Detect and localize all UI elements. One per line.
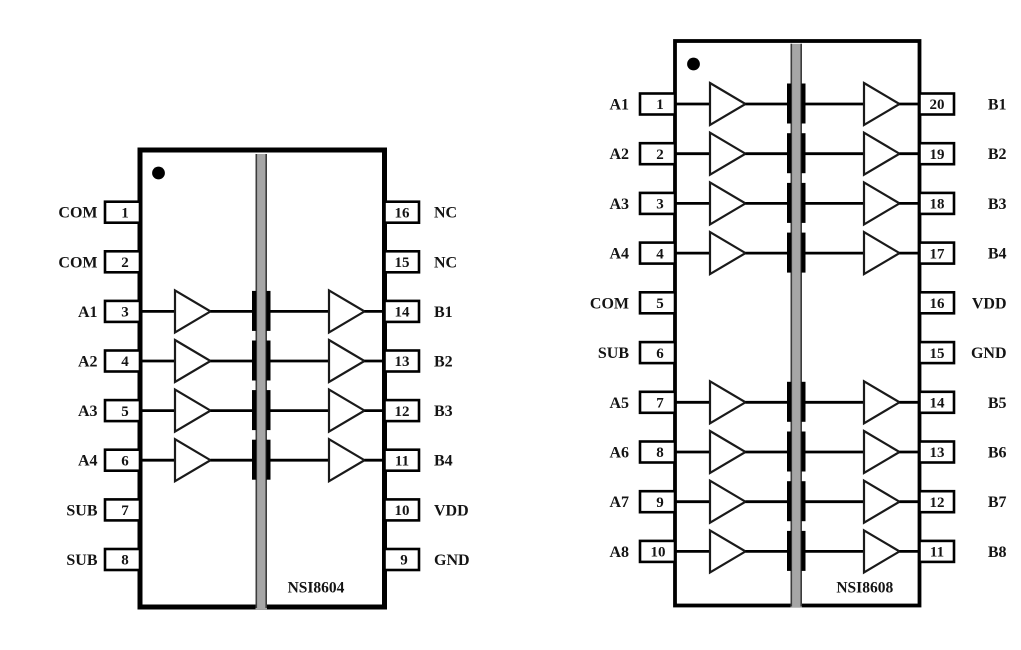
svg-text:11: 11 — [930, 545, 944, 561]
pin 1 box (NSI8604) — [105, 202, 140, 223]
isolation barrier (NSI8604) — [256, 154, 268, 609]
svg-text:16: 16 — [930, 296, 946, 312]
wire pin 10 to buffer input (NSI8608 A8-B8) — [673, 550, 710, 553]
pin 8 box (NSI8608) — [640, 442, 675, 463]
pin 17 box (NSI8608) — [920, 243, 955, 264]
wire buffer to pin 18 (NSI8608 A3-B3) — [900, 202, 922, 205]
pin 2 box (NSI8604) — [105, 251, 140, 272]
buffer driver A6 input side (NSI8608) — [710, 431, 746, 473]
buffer driver B4 output side (NSI8604) — [329, 439, 365, 481]
barrier coupling plate left (NSI8604 A2-B2) — [252, 341, 256, 381]
wire buffer output to barrier (NSI8608 A6-B6) — [746, 451, 788, 454]
pin 10 box (NSI8608) — [640, 541, 675, 562]
svg-text:A3: A3 — [78, 403, 98, 420]
wire buffer output to barrier (NSI8608 A2-B2) — [746, 152, 788, 155]
buffer driver A8 input side (NSI8608) — [710, 530, 746, 572]
pin 4 box (NSI8608) — [640, 243, 675, 264]
isolation barrier (NSI8608) — [791, 44, 803, 608]
wire buffer to pin 20 (NSI8608 A1-B1) — [900, 103, 922, 106]
pin 20 box (NSI8608) — [920, 94, 955, 115]
svg-text:15: 15 — [930, 346, 945, 362]
barrier coupling plate right (NSI8604 A4-B4) — [266, 440, 270, 480]
barrier coupling plate right (NSI8608 A3-B3) — [801, 183, 805, 223]
buffer driver B3 output side (NSI8608) — [864, 182, 900, 224]
pin 18 box (NSI8608) — [920, 193, 955, 214]
wire barrier to buffer input (NSI8608 A4-B4) — [806, 252, 865, 255]
svg-text:A2: A2 — [609, 146, 629, 163]
svg-text:6: 6 — [121, 453, 129, 469]
wire pin 4 to buffer input (NSI8604 A2-B2) — [138, 360, 175, 363]
wire buffer to pin 17 (NSI8608 A4-B4) — [900, 252, 922, 255]
wire buffer to pin 14 (NSI8604 A1-B1) — [365, 310, 387, 313]
svg-text:A6: A6 — [609, 445, 629, 462]
svg-text:8: 8 — [656, 445, 664, 461]
wire buffer output to barrier (NSI8608 A7-B7) — [746, 500, 788, 503]
wire barrier to buffer input (NSI8608 A3-B3) — [806, 202, 865, 205]
buffer driver B2 output side (NSI8608) — [864, 133, 900, 175]
wire barrier to buffer input (NSI8604 A1-B1) — [271, 310, 330, 313]
buffer driver B8 output side (NSI8608) — [864, 530, 900, 572]
wire pin 5 to buffer input (NSI8604 A3-B3) — [138, 409, 175, 412]
barrier coupling plate left (NSI8608 A5-B5) — [787, 382, 791, 422]
svg-text:COM: COM — [590, 295, 629, 312]
pin 1 box (NSI8608) — [640, 94, 675, 115]
barrier coupling plate right (NSI8608 A2-B2) — [801, 133, 805, 173]
barrier coupling plate left (NSI8608 A6-B6) — [787, 432, 791, 472]
wire buffer to pin 13 (NSI8604 A2-B2) — [365, 360, 387, 363]
wire pin 6 to buffer input (NSI8604 A4-B4) — [138, 459, 175, 462]
svg-text:SUB: SUB — [66, 552, 97, 569]
wire barrier to buffer input (NSI8604 A2-B2) — [271, 360, 330, 363]
wire pin 2 to buffer input (NSI8608 A2-B2) — [673, 152, 710, 155]
wire pin 3 to buffer input (NSI8608 A3-B3) — [673, 202, 710, 205]
svg-text:2: 2 — [656, 147, 664, 163]
svg-text:11: 11 — [395, 453, 409, 469]
wire pin 1 to buffer input (NSI8608 A1-B1) — [673, 103, 710, 106]
svg-text:B3: B3 — [434, 403, 453, 420]
pin 1 indicator dot (NSI8604) — [152, 167, 165, 180]
buffer driver B6 output side (NSI8608) — [864, 431, 900, 473]
pin 14 box (NSI8604) — [385, 301, 420, 322]
wire barrier to buffer input (NSI8608 A6-B6) — [806, 451, 865, 454]
buffer driver B5 output side (NSI8608) — [864, 381, 900, 423]
wire barrier to buffer input (NSI8604 A4-B4) — [271, 459, 330, 462]
svg-text:A1: A1 — [609, 97, 629, 114]
wire buffer output to barrier (NSI8608 A3-B3) — [746, 202, 788, 205]
wire buffer to pin 11 (NSI8608 A8-B8) — [900, 550, 922, 553]
svg-text:SUB: SUB — [66, 502, 97, 519]
barrier coupling plate left (NSI8608 A1-B1) — [787, 84, 791, 124]
svg-text:19: 19 — [930, 147, 945, 163]
barrier coupling plate right (NSI8608 A7-B7) — [801, 481, 805, 521]
pin 9 box (NSI8608) — [640, 491, 675, 512]
svg-text:3: 3 — [121, 305, 129, 321]
pin 11 box (NSI8604) — [385, 450, 420, 471]
svg-text:2: 2 — [121, 255, 129, 271]
wire barrier to buffer input (NSI8604 A3-B3) — [271, 409, 330, 412]
barrier coupling plate left (NSI8608 A7-B7) — [787, 481, 791, 521]
svg-text:7: 7 — [121, 503, 129, 519]
buffer driver A4 input side (NSI8608) — [710, 232, 746, 274]
svg-text:8: 8 — [121, 553, 129, 569]
barrier coupling plate right (NSI8608 A5-B5) — [801, 382, 805, 422]
buffer driver A1 input side (NSI8608) — [710, 83, 746, 125]
svg-text:VDD: VDD — [972, 295, 1007, 312]
pin 19 box (NSI8608) — [920, 143, 955, 164]
svg-text:9: 9 — [656, 495, 664, 511]
svg-text:NSI8608: NSI8608 — [836, 580, 893, 597]
barrier coupling plate left (NSI8608 A8-B8) — [787, 531, 791, 571]
svg-text:A1: A1 — [78, 304, 98, 321]
svg-text:A3: A3 — [609, 196, 629, 213]
svg-text:9: 9 — [400, 553, 408, 569]
buffer driver B2 output side (NSI8604) — [329, 340, 365, 382]
buffer driver A1 input side (NSI8604) — [175, 290, 211, 332]
svg-text:6: 6 — [656, 346, 664, 362]
buffer driver A2 input side (NSI8608) — [710, 133, 746, 175]
pin 13 box (NSI8608) — [920, 442, 955, 463]
svg-text:A4: A4 — [78, 453, 98, 470]
pin 7 box (NSI8608) — [640, 392, 675, 413]
wire buffer output to barrier (NSI8608 A8-B8) — [746, 550, 788, 553]
barrier coupling plate right (NSI8608 A1-B1) — [801, 84, 805, 124]
svg-text:10: 10 — [395, 503, 410, 519]
svg-text:COM: COM — [58, 205, 97, 222]
barrier coupling plate left (NSI8608 A2-B2) — [787, 133, 791, 173]
buffer driver A4 input side (NSI8604) — [175, 439, 211, 481]
pin 7 box (NSI8604) — [105, 499, 140, 520]
buffer driver A5 input side (NSI8608) — [710, 381, 746, 423]
svg-text:B5: B5 — [988, 395, 1007, 412]
svg-text:13: 13 — [930, 445, 945, 461]
buffer driver B1 output side (NSI8608) — [864, 83, 900, 125]
svg-text:10: 10 — [651, 545, 666, 561]
svg-text:4: 4 — [656, 246, 664, 262]
wire buffer output to barrier (NSI8604 A3-B3) — [211, 409, 253, 412]
svg-text:B2: B2 — [988, 146, 1007, 163]
pin 5 box (NSI8608) — [640, 292, 675, 313]
svg-text:16: 16 — [395, 205, 411, 221]
barrier coupling plate left (NSI8608 A3-B3) — [787, 183, 791, 223]
svg-text:B3: B3 — [988, 196, 1007, 213]
svg-text:B1: B1 — [988, 97, 1007, 114]
pin 2 box (NSI8608) — [640, 143, 675, 164]
svg-text:3: 3 — [656, 197, 664, 213]
pin 5 box (NSI8604) — [105, 400, 140, 421]
pin 13 box (NSI8604) — [385, 351, 420, 372]
buffer driver A7 input side (NSI8608) — [710, 481, 746, 523]
barrier coupling plate left (NSI8604 A3-B3) — [252, 390, 256, 430]
buffer driver B3 output side (NSI8604) — [329, 390, 365, 432]
pin 9 box (NSI8604) — [385, 549, 420, 570]
pin 16 box (NSI8608) — [920, 292, 955, 313]
svg-text:B8: B8 — [988, 544, 1007, 561]
svg-text:B4: B4 — [988, 246, 1007, 263]
wire barrier to buffer input (NSI8608 A5-B5) — [806, 401, 865, 404]
svg-text:VDD: VDD — [434, 502, 469, 519]
wire buffer output to barrier (NSI8604 A2-B2) — [211, 360, 253, 363]
svg-text:B2: B2 — [434, 354, 453, 371]
svg-text:14: 14 — [930, 396, 946, 412]
svg-text:B4: B4 — [434, 453, 453, 470]
svg-text:20: 20 — [930, 97, 945, 113]
wire buffer output to barrier (NSI8608 A5-B5) — [746, 401, 788, 404]
wire barrier to buffer input (NSI8608 A7-B7) — [806, 500, 865, 503]
wire barrier to buffer input (NSI8608 A1-B1) — [806, 103, 865, 106]
svg-text:15: 15 — [395, 255, 410, 271]
barrier coupling plate right (NSI8608 A6-B6) — [801, 432, 805, 472]
wire buffer to pin 11 (NSI8604 A4-B4) — [365, 459, 387, 462]
svg-text:17: 17 — [930, 246, 946, 262]
wire buffer to pin 13 (NSI8608 A6-B6) — [900, 451, 922, 454]
barrier coupling plate right (NSI8604 A1-B1) — [266, 291, 270, 331]
barrier coupling plate right (NSI8608 A4-B4) — [801, 233, 805, 273]
svg-text:B1: B1 — [434, 304, 453, 321]
svg-text:1: 1 — [121, 205, 129, 221]
svg-text:SUB: SUB — [598, 345, 629, 362]
wire barrier to buffer input (NSI8608 A8-B8) — [806, 550, 865, 553]
pin 4 box (NSI8604) — [105, 351, 140, 372]
wire buffer output to barrier (NSI8604 A4-B4) — [211, 459, 253, 462]
pin 6 box (NSI8604) — [105, 450, 140, 471]
pin 6 box (NSI8608) — [640, 342, 675, 363]
pin 12 box (NSI8604) — [385, 400, 420, 421]
wire buffer output to barrier (NSI8608 A4-B4) — [746, 252, 788, 255]
wire pin 7 to buffer input (NSI8608 A5-B5) — [673, 401, 710, 404]
svg-text:5: 5 — [121, 404, 129, 420]
svg-text:12: 12 — [930, 495, 945, 511]
svg-text:18: 18 — [930, 197, 945, 213]
IC body U1 (NSI8604) — [140, 150, 385, 607]
svg-text:4: 4 — [121, 354, 129, 370]
wire buffer output to barrier (NSI8604 A1-B1) — [211, 310, 253, 313]
barrier coupling plate left (NSI8604 A4-B4) — [252, 440, 256, 480]
pin 16 box (NSI8604) — [385, 202, 420, 223]
barrier coupling plate right (NSI8608 A8-B8) — [801, 531, 805, 571]
svg-text:GND: GND — [434, 552, 470, 569]
svg-text:13: 13 — [395, 354, 410, 370]
pin 12 box (NSI8608) — [920, 491, 955, 512]
pin 14 box (NSI8608) — [920, 392, 955, 413]
svg-text:B6: B6 — [988, 445, 1007, 462]
svg-text:NC: NC — [434, 254, 457, 271]
svg-text:A7: A7 — [609, 494, 629, 511]
svg-text:14: 14 — [395, 305, 411, 321]
buffer driver A3 input side (NSI8604) — [175, 390, 211, 432]
barrier coupling plate right (NSI8604 A3-B3) — [266, 390, 270, 430]
wire buffer to pin 19 (NSI8608 A2-B2) — [900, 152, 922, 155]
svg-text:5: 5 — [656, 296, 664, 312]
buffer driver B1 output side (NSI8604) — [329, 290, 365, 332]
wire buffer to pin 12 (NSI8608 A7-B7) — [900, 500, 922, 503]
barrier coupling plate right (NSI8604 A2-B2) — [266, 341, 270, 381]
buffer driver B4 output side (NSI8608) — [864, 232, 900, 274]
pin 10 box (NSI8604) — [385, 499, 420, 520]
svg-text:A4: A4 — [609, 246, 629, 263]
svg-text:NC: NC — [434, 205, 457, 222]
pin 15 box (NSI8604) — [385, 251, 420, 272]
pin 11 box (NSI8608) — [920, 541, 955, 562]
IC body U2 (NSI8608) — [675, 41, 920, 606]
svg-text:1: 1 — [656, 97, 664, 113]
wire pin 9 to buffer input (NSI8608 A7-B7) — [673, 500, 710, 503]
barrier coupling plate left (NSI8608 A4-B4) — [787, 233, 791, 273]
pin 15 box (NSI8608) — [920, 342, 955, 363]
pin 1 indicator dot (NSI8608) — [687, 58, 700, 71]
svg-text:B7: B7 — [988, 494, 1007, 511]
svg-text:GND: GND — [971, 345, 1007, 362]
wire buffer to pin 12 (NSI8604 A3-B3) — [365, 409, 387, 412]
svg-text:NSI8604: NSI8604 — [288, 580, 345, 597]
pin 3 box (NSI8608) — [640, 193, 675, 214]
wire buffer output to barrier (NSI8608 A1-B1) — [746, 103, 788, 106]
svg-text:A2: A2 — [78, 354, 98, 371]
wire buffer to pin 14 (NSI8608 A5-B5) — [900, 401, 922, 404]
buffer driver A3 input side (NSI8608) — [710, 182, 746, 224]
buffer driver A2 input side (NSI8604) — [175, 340, 211, 382]
wire pin 8 to buffer input (NSI8608 A6-B6) — [673, 451, 710, 454]
svg-text:A8: A8 — [609, 544, 629, 561]
svg-text:COM: COM — [58, 254, 97, 271]
svg-text:7: 7 — [656, 396, 664, 412]
wire pin 4 to buffer input (NSI8608 A4-B4) — [673, 252, 710, 255]
wire pin 3 to buffer input (NSI8604 A1-B1) — [138, 310, 175, 313]
buffer driver B7 output side (NSI8608) — [864, 481, 900, 523]
wire barrier to buffer input (NSI8608 A2-B2) — [806, 152, 865, 155]
pin 8 box (NSI8604) — [105, 549, 140, 570]
barrier coupling plate left (NSI8604 A1-B1) — [252, 291, 256, 331]
pin 3 box (NSI8604) — [105, 301, 140, 322]
svg-text:12: 12 — [395, 404, 410, 420]
svg-text:A5: A5 — [609, 395, 629, 412]
